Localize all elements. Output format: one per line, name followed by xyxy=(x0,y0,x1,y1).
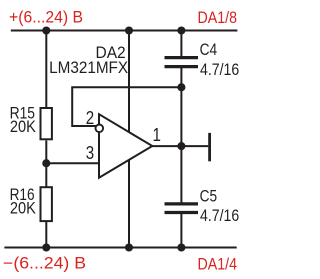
svg-text:+(6...24) B: +(6...24) B xyxy=(9,8,83,26)
resistor R16 xyxy=(10,186,52,221)
svg-text:2: 2 xyxy=(86,108,94,128)
svg-text:20K: 20K xyxy=(10,199,36,217)
wire feedback top xyxy=(72,87,181,126)
node top-left junction xyxy=(42,26,50,34)
node top C4 junction xyxy=(177,26,185,34)
svg-text:−(6...24) B: −(6...24) B xyxy=(3,255,86,273)
wire C4 branch top xyxy=(180,31,182,57)
node top V+ junction xyxy=(125,26,133,34)
node feedback/C4 junction xyxy=(177,83,185,91)
resistor R15 xyxy=(10,104,52,139)
svg-text:DA1/4: DA1/4 xyxy=(198,256,238,274)
wire C4 bottom to output node xyxy=(180,68,182,146)
node pin3/divider junction xyxy=(42,159,50,167)
svg-text:DA1/8: DA1/8 xyxy=(198,9,238,27)
node bottom C5 junction xyxy=(177,243,185,251)
svg-text:4.7/16: 4.7/16 xyxy=(200,207,239,225)
svg-text:1: 1 xyxy=(153,125,161,145)
wire left branch upper (rail to R15) xyxy=(45,31,47,108)
capacitor C5 xyxy=(165,188,240,225)
wire C5 bottom to bottom rail xyxy=(180,214,182,248)
inverting input bubble xyxy=(96,125,104,133)
node bottom-left junction xyxy=(42,243,50,251)
svg-text:C5: C5 xyxy=(200,188,218,206)
svg-text:20K: 20K xyxy=(10,118,36,136)
node output/C5 junction xyxy=(177,142,185,150)
wire bottom supply rail xyxy=(4,247,236,249)
wire V- stub xyxy=(128,160,130,248)
capacitor C4 xyxy=(165,41,240,79)
op-amp DA2 triangle xyxy=(49,44,152,178)
wire V+ stub xyxy=(128,31,130,133)
wire C5 branch top xyxy=(180,146,182,202)
svg-text:LM321MFX: LM321MFX xyxy=(49,59,128,77)
svg-text:4.7/16: 4.7/16 xyxy=(200,61,239,79)
svg-text:3: 3 xyxy=(86,143,94,163)
svg-text:C4: C4 xyxy=(200,41,218,59)
wire top supply rail xyxy=(11,30,238,32)
wire pin3 input xyxy=(46,162,99,164)
wire R15 to R16 xyxy=(45,141,47,187)
wire R16 to bottom rail xyxy=(45,222,47,248)
node bottom V- junction xyxy=(125,243,133,251)
wire output xyxy=(152,145,208,147)
output terminal bar xyxy=(208,133,211,161)
